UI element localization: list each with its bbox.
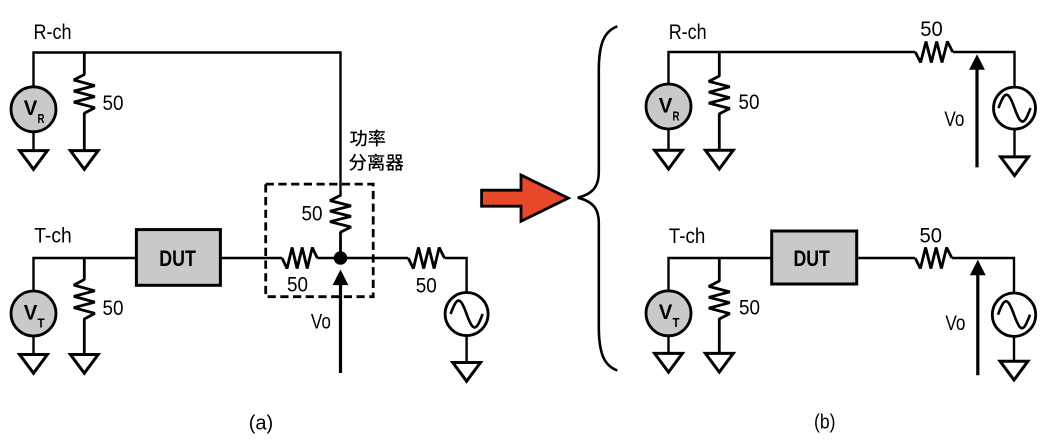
voltmeter VR (b) [646,84,691,129]
DUT U2 [772,231,857,284]
voltmeter VT (b) [646,291,691,336]
wire source to ground (b top) [1013,130,1015,157]
svg-text:50: 50 [103,296,124,320]
svg-text:(a): (a) [249,413,273,435]
svg-text:V: V [659,301,673,324]
svg-text:50: 50 [302,201,323,225]
ground [705,353,733,372]
wire series to source (b bottom) [952,258,1014,293]
wire source to ground (b bottom) [1013,338,1015,362]
svg-text:R: R [38,111,45,126]
label 分离器 (splitter) [349,154,366,171]
wire R-ch rail [34,53,341,197]
svg-text:Vo: Vo [944,107,964,131]
ground [20,151,48,170]
wire resistor to node [317,257,340,259]
svg-text:V: V [659,94,673,117]
svg-text:50: 50 [739,296,760,320]
wire series to source (b top) [953,52,1015,86]
resistor R2 50 (T-ch termination) [74,258,95,354]
wire DUT to resistor (b) [858,257,915,259]
svg-text:50: 50 [920,224,943,248]
arrow Vo (b bottom) [976,273,979,375]
svg-text:50: 50 [103,91,124,115]
ground [655,150,683,169]
red transform arrow [482,175,569,221]
resistor R1 50 (R-ch termination) [74,53,95,151]
svg-text:50: 50 [416,274,437,298]
svg-text:R-ch: R-ch [669,20,707,44]
svg-text:DUT: DUT [794,246,831,271]
voltmeter VR [11,87,56,132]
arrow Vo (b top) [975,68,978,168]
source V1 (sine) [445,293,488,336]
svg-text:50: 50 [287,272,308,296]
node junction [334,251,348,265]
svg-text:V: V [24,301,38,324]
ground [453,363,481,382]
ground [70,355,98,374]
ground [1000,361,1028,380]
voltmeter VT [11,291,56,336]
power splitter dashed box [266,184,374,297]
resistor R7 50 (series) [915,42,952,63]
svg-text:50: 50 [739,90,760,114]
ground [70,151,98,170]
svg-text:T: T [673,315,680,330]
DUT U1 [136,230,220,286]
resistor R4 50 (splitter series arm) [282,248,317,269]
svg-text:(b): (b) [814,411,836,433]
wire to source [444,258,466,292]
label 功率 (power) [350,130,367,147]
resistor R6 50 (termination) [709,52,730,150]
resistor R3 50 (splitter shunt arm) [330,195,351,258]
wire R-ch rail (b) [669,52,916,84]
source V2 (sine) [994,87,1036,129]
wire T-ch rail [34,258,138,292]
svg-text:T-ch: T-ch [34,224,71,248]
wire VR to ground (b) [667,128,669,150]
resistor R9 50 (series) [915,248,952,269]
wire VT to ground [32,335,34,354]
curly brace [578,26,618,370]
ground [705,150,733,169]
svg-text:V: V [24,97,38,120]
arrow Vo (a) [339,283,342,373]
svg-text:Vo: Vo [945,311,965,335]
ground [655,353,683,372]
ground [20,355,48,374]
wire source to ground [465,336,467,363]
svg-text:50: 50 [920,17,943,41]
svg-text:T: T [38,315,45,330]
resistor R5 50 (source side) [408,248,444,269]
wire VR to ground [32,131,34,151]
svg-text:R-ch: R-ch [34,20,72,44]
source V3 (sine) [992,293,1035,336]
resistor R8 50 (termination) [709,258,730,353]
wire DUT to splitter [222,257,282,259]
svg-text:T-ch: T-ch [669,224,706,248]
svg-text:DUT: DUT [159,246,196,271]
ground [1001,157,1029,176]
wire VT to ground (b) [667,335,669,353]
svg-text:R: R [673,108,680,123]
svg-text:Vo: Vo [311,309,331,333]
wire node to source [347,257,408,259]
wire T-ch rail (b) [669,258,773,292]
